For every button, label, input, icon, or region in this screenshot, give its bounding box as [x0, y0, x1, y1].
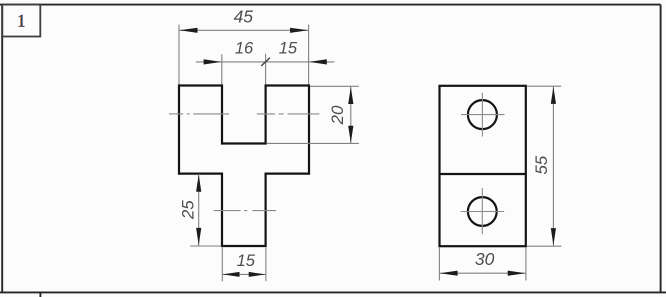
upper hole circle — [468, 100, 497, 129]
dimension 20 top arrow — [348, 87, 353, 104]
dimension 30 extension lines — [439, 248, 526, 281]
dimension 20 bottom arrow — [348, 126, 353, 143]
dimension 25 bottom arrow — [196, 228, 201, 245]
dimension 45 extension lines — [179, 25, 309, 85]
dimension 15 (bottom) extension lines — [222, 248, 266, 282]
lower hole circle — [468, 197, 497, 226]
dimension 15 (bottom) line — [222, 273, 266, 275]
shared point slash tick — [261, 58, 270, 66]
dimension 30 left arrow — [440, 271, 458, 276]
dimension 16/15 extension lines — [222, 54, 266, 85]
side view middle edge — [440, 173, 526, 175]
svg-text:45: 45 — [234, 7, 254, 27]
dimension 45 right arrow — [290, 28, 308, 33]
front view horizontal centerline — [169, 113, 319, 115]
dimension 15 bottom right arrow — [249, 272, 266, 277]
dimension 55 line — [552, 86, 554, 246]
dimension 45 line — [179, 29, 309, 31]
front view outline — [179, 86, 309, 247]
svg-text:20: 20 — [328, 105, 347, 125]
dimension 15 bottom left arrow — [223, 272, 240, 277]
dimension 16/15 line — [196, 61, 335, 63]
svg-text:1: 1 — [17, 11, 26, 31]
title block tick below frame — [39, 292, 41, 297]
front view stem centerline — [214, 210, 276, 212]
svg-text:25: 25 — [179, 200, 198, 220]
dimension 15 right arrow (outside) — [309, 59, 327, 64]
svg-text:15: 15 — [279, 40, 298, 58]
lower hole crosshair — [461, 188, 505, 234]
dimension 25 bottom extension line — [190, 245, 221, 247]
svg-text:55: 55 — [532, 155, 551, 174]
dimension 45 left arrow — [179, 28, 197, 33]
dimension 25 line — [198, 174, 200, 246]
svg-text:16: 16 — [235, 40, 254, 58]
dimension 20 extension lines — [267, 86, 359, 143]
dimension 30 line — [439, 272, 526, 274]
svg-text:30: 30 — [475, 249, 495, 269]
dimension 20 line — [350, 86, 352, 143]
dimension 55 bottom arrow — [551, 228, 556, 245]
dimension 25 top arrow — [196, 174, 201, 191]
sheet number box — [2, 5, 40, 37]
side view outline — [440, 86, 526, 246]
dimension 30 right arrow — [508, 271, 526, 276]
dimension 55 top arrow — [551, 87, 556, 104]
dimension 16 left arrow (outside) — [204, 59, 222, 64]
svg-text:15: 15 — [237, 252, 256, 270]
upper hole crosshair — [461, 93, 505, 137]
dimension 55 extension lines — [527, 86, 561, 246]
